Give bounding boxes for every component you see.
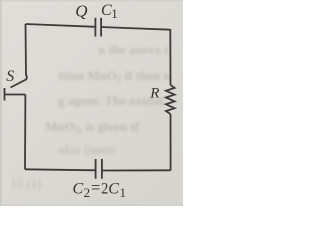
- svg-text:ular (nottr: ular (nottr: [58, 142, 117, 157]
- svg-text:g agent. The oxidat: g agent. The oxidat: [58, 93, 165, 108]
- svg-text:C: C: [73, 181, 84, 198]
- svg-text:R: R: [149, 85, 159, 101]
- svg-text:Q: Q: [75, 2, 87, 21]
- svg-text:1: 1: [120, 185, 127, 200]
- svg-text:S: S: [6, 68, 14, 85]
- svg-text:n the aoove t: n the aoove t: [98, 42, 169, 57]
- svg-text:15 (1): 15 (1): [10, 176, 41, 191]
- svg-text:1: 1: [111, 6, 118, 21]
- svg-text:ttion MnO2 if then o: ttion MnO2 if then o: [58, 68, 170, 84]
- svg-text:MnO2, is given tf: MnO2, is given tf: [45, 119, 140, 135]
- svg-text:=: =: [91, 178, 100, 197]
- svg-text:2: 2: [84, 185, 91, 200]
- svg-text:C: C: [108, 181, 119, 198]
